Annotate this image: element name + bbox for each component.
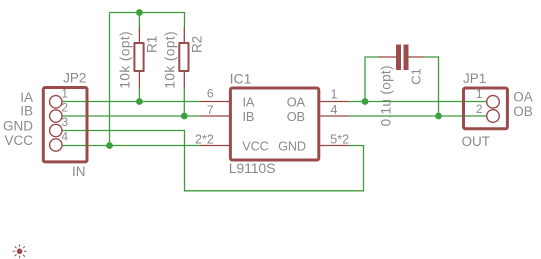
svg-text:2: 2 (476, 102, 483, 116)
svg-text:2: 2 (61, 101, 68, 115)
svg-text:VCC: VCC (4, 133, 33, 148)
svg-text:IB: IB (243, 109, 255, 124)
svg-text:JP2: JP2 (63, 71, 86, 86)
svg-text:OA: OA (513, 90, 533, 105)
svg-text:4: 4 (331, 103, 338, 117)
svg-text:C1: C1 (409, 68, 424, 85)
svg-text:JP1: JP1 (463, 71, 486, 86)
svg-text:IC1: IC1 (230, 71, 252, 87)
svg-text:VCC: VCC (242, 139, 268, 154)
svg-text:4: 4 (61, 129, 68, 143)
svg-text:3: 3 (61, 115, 68, 129)
svg-text:OA: OA (287, 95, 306, 110)
svg-text:L9110S: L9110S (229, 161, 276, 177)
svg-text:2*2: 2*2 (195, 133, 214, 147)
svg-text:IA: IA (243, 95, 255, 110)
svg-text:1: 1 (476, 87, 483, 101)
svg-text:10k (opt): 10k (opt) (163, 31, 178, 89)
svg-text:IB: IB (20, 104, 33, 119)
svg-text:OB: OB (287, 109, 305, 124)
svg-text:1: 1 (61, 86, 68, 100)
svg-text:10k (opt): 10k (opt) (117, 31, 132, 89)
svg-text:R1: R1 (145, 36, 160, 53)
svg-text:OUT: OUT (462, 134, 491, 149)
svg-text:6: 6 (207, 87, 214, 101)
svg-text:7: 7 (207, 103, 214, 117)
svg-text:OB: OB (513, 104, 533, 119)
svg-text:5*2: 5*2 (330, 133, 349, 147)
svg-text:0.1u (opt): 0.1u (opt) (378, 65, 393, 126)
svg-text:IA: IA (20, 90, 33, 105)
svg-text:GND: GND (278, 139, 306, 154)
svg-text:1: 1 (331, 87, 338, 101)
svg-text:R2: R2 (190, 36, 205, 53)
svg-text:GND: GND (3, 118, 33, 133)
svg-text:IN: IN (72, 164, 86, 179)
